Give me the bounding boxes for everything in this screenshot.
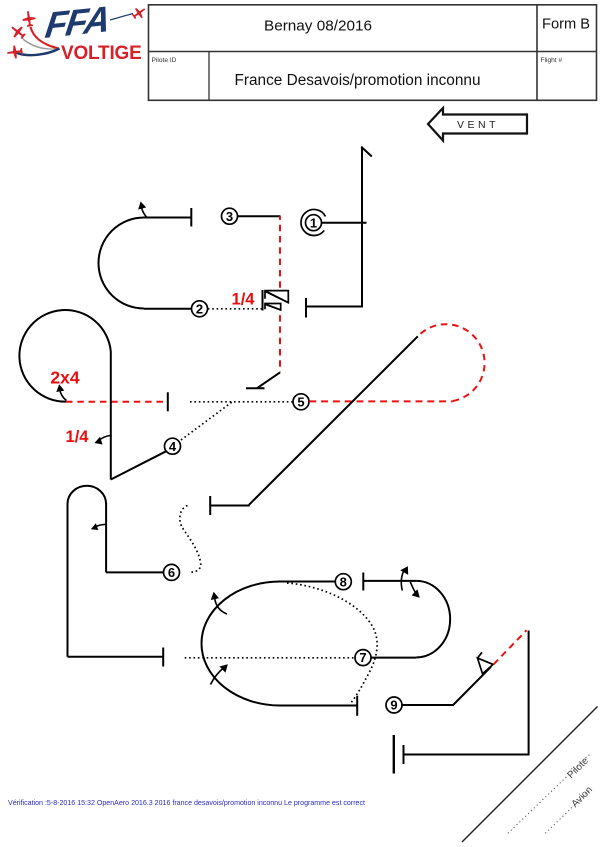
corner diagonal bbox=[462, 707, 598, 843]
figure 9 snap tail bbox=[478, 652, 483, 658]
header col divider right bbox=[536, 5, 538, 101]
figure 3 exit line bbox=[238, 215, 281, 217]
logo plane top bbox=[22, 10, 37, 27]
figure 6 left vertical bbox=[67, 503, 69, 657]
spin symbol flag 1 bbox=[265, 291, 288, 303]
svg-text:FFA: FFA bbox=[43, 0, 112, 46]
figure 3 number circle bbox=[222, 208, 238, 224]
figure 2 top line bbox=[143, 217, 191, 219]
figure 2 top tick bbox=[190, 208, 192, 227]
svg-text:2: 2 bbox=[196, 301, 203, 316]
figure 7 oval dotted right bbox=[287, 583, 377, 704]
figure 1 vertical line bbox=[361, 147, 363, 307]
figure 8 entry tick bbox=[362, 573, 364, 591]
wind arrow VENT bbox=[428, 108, 527, 141]
figure 5 red loop arc bbox=[418, 324, 485, 401]
sequence end bar bbox=[393, 735, 395, 774]
svg-text:5: 5 bbox=[297, 394, 304, 409]
loop down vertical bbox=[110, 352, 112, 480]
loop roll arrow bbox=[60, 390, 67, 401]
signature line avion bbox=[545, 789, 591, 833]
figure 9 snap triangle bbox=[478, 658, 494, 674]
figure 9 down vertical bbox=[528, 631, 530, 755]
header table outer border bbox=[149, 5, 597, 101]
figure 1 link line bbox=[322, 222, 367, 224]
logo swoosh red bbox=[31, 27, 59, 49]
figure 8 exit line bbox=[371, 657, 416, 659]
svg-text:Form B: Form B bbox=[542, 16, 590, 33]
svg-text:1/4: 1/4 bbox=[66, 428, 90, 446]
spin exit diagonal bbox=[257, 372, 280, 388]
loop red dashed base bbox=[66, 401, 168, 403]
logo plane right bbox=[130, 4, 148, 21]
figure 7 bottom tick bbox=[356, 696, 358, 716]
spin exit bar bbox=[246, 387, 265, 389]
figure 6 right vertical bbox=[105, 503, 107, 572]
figure 1 bottom line bbox=[306, 306, 363, 308]
figure 6 exit line bbox=[68, 656, 164, 658]
dotted connector 4 to 5 bbox=[181, 402, 232, 440]
svg-text:France Desavois/promotion inco: France Desavois/promotion inconnu bbox=[235, 72, 481, 89]
figure 9 45-degree upline bbox=[453, 667, 491, 706]
svg-text:6: 6 bbox=[168, 565, 175, 580]
figure 5 red dashed entry bbox=[309, 400, 453, 402]
loop base tick bbox=[167, 392, 169, 411]
figure 5 45-degree downline bbox=[249, 336, 418, 505]
figure 1 number circle bbox=[306, 215, 322, 231]
logo contrail line bbox=[110, 14, 133, 21]
figure 6 entry line bbox=[106, 571, 163, 573]
loop 2x4 circle bbox=[19, 310, 110, 402]
spin symbol pole bbox=[262, 290, 264, 311]
figure 1 entry tick bbox=[305, 298, 307, 318]
figure 2 bottom line bbox=[144, 308, 192, 310]
figure 6 hairpin arc bbox=[68, 486, 107, 504]
dotted S connector 5 to 6 bbox=[180, 506, 201, 573]
figure 1 top flick bbox=[361, 147, 372, 157]
svg-text:Flight #: Flight # bbox=[541, 57, 563, 64]
dotted line into circle 5 bbox=[190, 401, 293, 403]
red inverted line vertical bbox=[279, 216, 281, 372]
figure 8 entry line bbox=[363, 580, 416, 582]
figure 2 roll arrow bbox=[142, 207, 147, 217]
logo swoosh navy bbox=[16, 49, 60, 56]
svg-text:Vérification :5-8-2016 15:32 O: Vérification :5-8-2016 15:32 OpenAero 20… bbox=[8, 799, 365, 807]
figure 7 oval solid bbox=[202, 582, 358, 706]
svg-text:1: 1 bbox=[310, 215, 317, 230]
figure 6 number circle bbox=[164, 564, 180, 580]
figure 2 half-loop arc bbox=[99, 218, 145, 309]
svg-text:Bernay 08/2016: Bernay 08/2016 bbox=[264, 18, 372, 35]
figure 6 roll arrow bbox=[96, 524, 107, 527]
svg-text:9: 9 bbox=[390, 698, 397, 713]
svg-text:VOLTIGE: VOLTIGE bbox=[61, 43, 142, 64]
figure 7 lower roll arrow bbox=[211, 668, 225, 685]
figure 4 diagonal bbox=[111, 451, 166, 479]
logo plane mid-left bbox=[8, 22, 28, 42]
figure 7 upper roll arrow bbox=[215, 598, 228, 615]
figure 9 end tick bbox=[403, 745, 405, 764]
svg-text:7: 7 bbox=[359, 650, 366, 665]
figure 1 outer arc bbox=[301, 209, 326, 235]
vertical roll arrow bbox=[99, 436, 111, 441]
svg-text:VENT: VENT bbox=[457, 119, 499, 131]
svg-text:2x4: 2x4 bbox=[50, 368, 79, 388]
figure 2 number circle bbox=[192, 301, 208, 317]
dotted connector c2 to spin bbox=[208, 308, 264, 310]
figure 5 bottom line bbox=[210, 505, 250, 507]
figure 4 number circle bbox=[165, 438, 181, 454]
figure 5 number circle bbox=[293, 394, 309, 410]
figure 8 roll arrow down bbox=[410, 582, 416, 594]
figure 7 number circle bbox=[355, 650, 371, 666]
figure 9 entry line bbox=[402, 704, 453, 706]
figure 8 half-loop bbox=[416, 581, 450, 658]
spin symbol flag 2 bbox=[265, 304, 281, 310]
svg-text:1/4: 1/4 bbox=[232, 291, 256, 309]
figure 8 roll arrow up bbox=[401, 569, 405, 591]
figure 6 exit tick bbox=[162, 648, 164, 667]
figure 7 dotted centre line bbox=[185, 657, 355, 659]
svg-text:4: 4 bbox=[169, 439, 177, 454]
header col divider pilote bbox=[208, 52, 210, 101]
header row divider bbox=[149, 51, 597, 53]
figure 9 red dashed upline bbox=[494, 630, 527, 664]
logo plane bottom bbox=[6, 45, 23, 60]
svg-text:Pilote ID: Pilote ID bbox=[152, 57, 177, 64]
figure 8 number circle bbox=[335, 574, 351, 590]
figure 5 exit tick bbox=[209, 496, 211, 515]
figure 9 number circle bbox=[386, 697, 402, 713]
figure 9 bottom line bbox=[404, 754, 530, 756]
logo swoosh gray bbox=[21, 37, 59, 49]
svg-text:3: 3 bbox=[226, 209, 233, 224]
svg-text:8: 8 bbox=[340, 574, 347, 589]
signature line pilote bbox=[508, 755, 590, 834]
